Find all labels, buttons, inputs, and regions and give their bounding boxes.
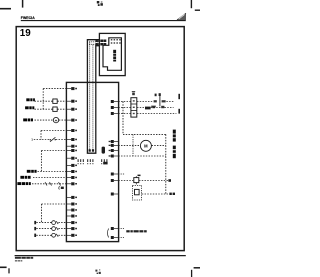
ECU left pin 6 number (75, 139, 77, 141)
header title text (21, 16, 35, 20)
ECU left pin 18 (67, 221, 75, 224)
terminal bar T2 (178, 109, 180, 114)
wire right row 3a (118, 113, 130, 115)
ECU left pin 2 (67, 100, 75, 103)
wire right row 2 label (151, 106, 164, 109)
wire row Rb (58, 234, 67, 236)
ECU left pin 6 (67, 138, 75, 141)
ECU left pin 14 number (75, 197, 77, 199)
fuse strip top label (132, 91, 135, 95)
trunk motor right (165, 134, 167, 194)
ECU left pin 19 (67, 227, 75, 230)
wire row Pb (58, 222, 67, 224)
harness wire A horizontal (89, 41, 99, 43)
harness wire A vertical (89, 42, 91, 149)
wire bottom pair a (118, 228, 124, 230)
ECU left pin 9 number (75, 157, 77, 159)
header rule (21, 20, 186, 22)
label row K2 (20, 176, 30, 179)
ECU left pin 10 number (75, 165, 77, 167)
registration mark bottom-right horizontal (194, 267, 200, 269)
ECU left pin 3 (67, 108, 75, 111)
wire right row 4b (139, 180, 168, 182)
component C11 (132, 185, 141, 200)
ECU left pin 17 (67, 215, 75, 218)
wire right row 2b (137, 107, 174, 109)
wire row C2 (57, 108, 67, 110)
ECU left pin 8 (67, 149, 75, 152)
wire row K3 (32, 183, 67, 185)
ECU left pin 8 number (75, 150, 77, 152)
stub right pin 174 (118, 173, 124, 175)
ECU left pin 3 number (75, 108, 77, 110)
connector pin grid (95, 40, 106, 46)
label row F (31, 138, 33, 142)
trunk N-P (41, 204, 43, 223)
wire right row 1c (166, 101, 173, 103)
wire motor top (123, 133, 166, 135)
ECU right pin 9 (111, 179, 119, 182)
ECU left pin 9 (67, 157, 75, 160)
ECU left pin 16 number (75, 209, 77, 211)
svg-text:M: M (144, 144, 148, 149)
ECU left pin 4 (67, 119, 75, 122)
ECU right pin label y141.5 (109, 141, 111, 142)
wire right row 1 labels (154, 100, 166, 102)
component K2 (53, 106, 57, 111)
registration mark top-right vertical (190, 0, 192, 8)
footer text line 2 (15, 260, 22, 261)
component row R (52, 233, 59, 237)
ECU left pin 20 (67, 234, 75, 237)
wire right row 5 (142, 193, 169, 195)
wire right row 1a (118, 101, 130, 103)
label row K3 (17, 182, 30, 185)
connector box J1 outline (99, 33, 125, 75)
trunk right (122, 102, 124, 135)
ECU right pin label y156.0 (109, 155, 111, 156)
harness wire B vertical (92, 45, 94, 150)
ECU right pin 11 (111, 227, 119, 230)
component row Q (52, 227, 59, 231)
label row C (25, 106, 34, 109)
wire motor bottom (118, 155, 166, 157)
harness end pin A (89, 149, 91, 151)
fuse strip F1 (131, 98, 137, 117)
ECU right pin 6 (111, 149, 119, 152)
ECU left pin 5 (67, 129, 75, 132)
wire row H (41, 150, 67, 152)
terminal tick row R (34, 234, 36, 237)
ECU right pin 2 (111, 106, 119, 109)
wire row B1 (35, 100, 53, 102)
wire right row 3b (137, 113, 176, 115)
motor box left edge (132, 134, 134, 156)
wire row F1 (34, 139, 50, 141)
registration mark bottom-right vertical (191, 270, 193, 277)
ECU right pin 4 (111, 140, 119, 143)
component row P (52, 221, 59, 225)
ECU left pin 7 number (75, 145, 77, 147)
terminal tick row P (34, 221, 36, 224)
registration cross bottom-center (95, 269, 100, 274)
ECU left pin 15 number (75, 203, 77, 205)
terminal bar T1 (178, 94, 180, 99)
wire row C1 (35, 108, 53, 110)
trunk H-K1 (40, 151, 42, 172)
ECU left pin 2 number (75, 100, 77, 102)
ECU right pin label y145.4 (109, 145, 111, 146)
ECU left pin 10 (67, 164, 75, 167)
component B1 sensor (53, 117, 58, 122)
pin pair brace (108, 229, 109, 238)
ECU right pin label y150.5 (109, 150, 111, 151)
ECU left pin 15 (67, 203, 75, 206)
terminal row 4 (168, 179, 171, 182)
component X1 (145, 106, 155, 109)
ECU left pin 13 (67, 182, 75, 185)
relay vertical label (113, 50, 116, 62)
ECU block outline (66, 82, 118, 241)
header logo triangle (177, 13, 186, 20)
ECU right pin 10 (111, 193, 119, 196)
ECU left pin 1 number (75, 88, 77, 90)
motor vertical label (173, 130, 176, 159)
ECU right pin 3 (111, 112, 119, 115)
registration mark top-left horizontal (0, 8, 11, 10)
component C10 label (138, 175, 141, 177)
trunk E-F (40, 131, 42, 140)
wire row Pa (36, 222, 51, 224)
wire row K2 (33, 177, 67, 179)
ECU left pin 14 (67, 196, 75, 199)
component C10 (134, 176, 139, 184)
ECU right pin 1 (111, 100, 119, 103)
ECU left pin 19 number (75, 228, 77, 230)
ECU right pin 8 (111, 173, 119, 176)
terminal row 5 (169, 193, 175, 195)
wire row E (41, 130, 67, 132)
wire row Ra (36, 234, 51, 236)
wire right row 1b (137, 101, 153, 103)
wire row F2 (56, 139, 67, 141)
splice blob (103, 162, 107, 165)
junction stub J2 (159, 94, 161, 106)
label row B (26, 98, 35, 101)
ECU right pin 7 (111, 155, 119, 158)
harness wire B horizontal (89, 43, 99, 45)
label row K1 (27, 170, 37, 173)
wire row D1 (35, 119, 54, 121)
wire motor mid a (118, 144, 140, 146)
bottom pair label (126, 230, 146, 232)
relay pin row (111, 39, 121, 43)
ECU left pin 18 number (75, 222, 77, 224)
harness shield outline top (87, 40, 99, 154)
page border frame (16, 27, 184, 251)
wire row N (42, 203, 67, 205)
ECU left pin 12 (67, 176, 75, 179)
ECU left pin 13 number (75, 183, 77, 185)
ECU left pin 11 number (75, 171, 77, 173)
component S1 switch (50, 137, 56, 141)
ECU left pin 7 (67, 145, 75, 148)
terminal tick row Q (34, 227, 36, 230)
wire row B2 (57, 100, 67, 102)
ECU left pin 16 (67, 209, 75, 212)
registration cross top-center (97, 1, 103, 6)
wire bottom pair b (118, 237, 124, 239)
splice tick rows (78, 159, 108, 164)
shield symbol row K3 (59, 186, 64, 189)
svg-text:19: 19 (20, 28, 31, 39)
ECU left pin 1 (67, 87, 75, 90)
registration mark bottom-left vertical (8, 268, 10, 273)
registration mark bottom-left horizontal (0, 266, 7, 268)
wire row D2 (59, 119, 67, 121)
shield hatches row K3 (45, 182, 61, 186)
fuse strip cell letters (133, 100, 135, 114)
ECU left pin 11 (67, 170, 75, 173)
component K1 (53, 98, 57, 103)
page number 19 (20, 28, 31, 39)
wire row A (43, 88, 67, 90)
wire row Qa (36, 228, 51, 230)
label row D (23, 118, 33, 121)
wire row K1 (38, 171, 67, 173)
wire right row 4a (118, 180, 133, 182)
registration mark top-right horizontal (195, 9, 200, 11)
ECU left pin 4 number (75, 119, 77, 121)
wire motor mid b (152, 144, 166, 146)
trunk A-C (42, 89, 44, 110)
harness end pin B (92, 149, 94, 151)
registration mark top-left vertical (22, 0, 24, 8)
wire right row 2a (118, 107, 130, 109)
svg-text:FWECIA: FWECIA (21, 16, 35, 20)
ECU right pin 12 (111, 236, 119, 239)
ECU left pin 20 number (75, 235, 77, 237)
footer text line 1 (15, 257, 33, 259)
ECU left pin 17 number (75, 215, 77, 217)
ECU left pin 5 number (75, 130, 77, 132)
relay housing inner outline (103, 38, 121, 71)
wire row Qb (58, 228, 67, 230)
junction labels (155, 93, 161, 96)
ECU left pin 12 number (75, 177, 77, 179)
footer rule (15, 255, 186, 257)
internal component blob (102, 147, 105, 154)
ECU right pin 5 (111, 144, 119, 147)
motor M1 (140, 140, 151, 151)
